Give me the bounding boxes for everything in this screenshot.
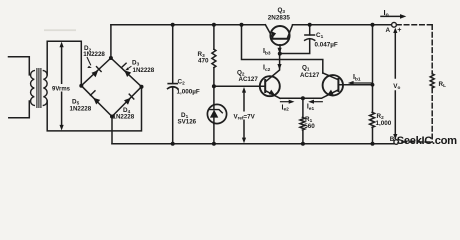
node Vref measurement arrow (243, 92, 245, 139)
wire top rail left segment (raw DC) (111, 24, 265, 26)
wire Q3 emitter lead (265, 25, 272, 38)
label Vref 7V (233, 112, 258, 120)
svg-text:0.047µF: 0.047µF (315, 41, 338, 48)
svg-text:B: B (390, 136, 395, 143)
wire Q1 emitter (280, 90, 338, 99)
svg-text:470: 470 (198, 58, 209, 65)
svg-text:Ie1: Ie1 (307, 104, 315, 112)
zener diode D1 (213, 86, 215, 105)
transistor Q3 (270, 26, 289, 45)
wire Q2 base line (214, 85, 265, 87)
node emitter junction (301, 96, 305, 100)
diode D2 cathode bar (97, 67, 102, 72)
label 9Vrms (51, 84, 69, 92)
svg-text:Vo: Vo (393, 83, 400, 90)
diode D3 cathode bar (122, 63, 127, 67)
resistor R1 branch (302, 98, 304, 117)
diode D2 arrow (92, 70, 99, 77)
svg-text:1N2228: 1N2228 (83, 51, 105, 58)
terminal A+ (392, 22, 397, 27)
resistor R2 branch (372, 25, 374, 113)
svg-text:Ic2: Ic2 (263, 65, 271, 73)
wire dashed load loop (397, 25, 433, 142)
node I_e2 arrow (281, 101, 291, 103)
svg-text:SV126: SV126 (178, 119, 197, 126)
scan smudge artifact (44, 29, 76, 31)
wire bridge bottom vertical (111, 117, 113, 144)
resistor R3 zigzag (212, 49, 216, 67)
label pointer D3 (128, 67, 131, 69)
svg-text:1N2228: 1N2228 (70, 106, 92, 113)
svg-text:Io: Io (384, 8, 389, 18)
node R2/Q1 base junction (371, 83, 375, 87)
transistor Q2 (260, 76, 280, 96)
svg-text:AC127: AC127 (239, 76, 259, 83)
wire Q3 collector lead (287, 25, 292, 38)
svg-text:9Vrms: 9Vrms (52, 86, 71, 92)
diode D4 cathode bar (129, 94, 134, 99)
wire bottom rail (112, 143, 394, 145)
node I_b3 junction (278, 52, 282, 56)
transistor Q1 (323, 75, 343, 95)
node I_b1 arrow (353, 82, 372, 84)
wire Q1 collector diag (323, 73, 339, 80)
svg-text:D3: D3 (132, 60, 140, 67)
node 9Vrms measurement arrow (60, 42, 64, 131)
terminal B- (394, 140, 399, 145)
svg-text:Ib3: Ib3 (263, 48, 271, 56)
wire Q2 collector (265, 54, 279, 82)
node Vo measurement line (394, 30, 396, 137)
node I_c2 arrow on Q2 collector (277, 64, 281, 70)
transformer T1 secondary winding (43, 71, 47, 106)
svg-text:A: A (386, 27, 391, 34)
wire Q2 emitter (265, 91, 280, 99)
junction dots bridge (109, 56, 113, 60)
svg-text:Q3: Q3 (278, 7, 286, 14)
svg-text:1N2228: 1N2228 (133, 67, 155, 74)
svg-text:1,000: 1,000 (376, 120, 392, 127)
wire Q3 base to C1 (280, 40, 310, 54)
resistor RL zigzag (430, 74, 434, 88)
wire Q1 collector feed from raw rail (242, 25, 323, 73)
wire secondary bottom lead (47, 87, 141, 131)
transformer T1 primary bottom lead (9, 101, 30, 118)
diode bridge arms (81, 58, 141, 117)
diode D4 arrow (124, 98, 131, 105)
svg-text:2N2835: 2N2835 (268, 15, 291, 22)
capacitor C1 (305, 34, 315, 36)
svg-text:SeekIC.com: SeekIC.com (397, 135, 457, 147)
svg-text:RL: RL (439, 81, 447, 88)
svg-text:C2: C2 (178, 79, 186, 86)
svg-text:Ie2: Ie2 (282, 104, 290, 112)
node I_e1 arrow (312, 101, 322, 103)
wire secondary top lead (47, 41, 81, 85)
svg-text:Vref=7V: Vref=7V (234, 113, 256, 120)
junction dots top rail (171, 23, 175, 27)
svg-text:+: + (397, 25, 401, 34)
label pointer D2 (87, 58, 90, 65)
svg-text:560: 560 (304, 123, 315, 130)
node R3 zener junction (212, 84, 216, 88)
svg-text:AC127: AC127 (300, 72, 320, 79)
transformer T1 primary winding (31, 71, 35, 106)
capacitor C2 branch (172, 25, 174, 84)
transformer T1 primary top lead (9, 57, 30, 75)
diode D5 cathode bar (90, 91, 95, 95)
svg-text:C1: C1 (316, 32, 324, 39)
junction dots bottom rail (171, 142, 175, 146)
resistor R3 branch (213, 25, 215, 49)
wire top rail right segment (output) (293, 24, 392, 26)
svg-text:Ib1: Ib1 (353, 74, 361, 82)
wire Q3 base (279, 45, 281, 54)
wire bridge top vertical (110, 25, 112, 58)
diode D5 arrow (93, 98, 100, 105)
diode D3 arrow (124, 70, 131, 77)
svg-text:1,000µF: 1,000µF (177, 89, 200, 96)
wire Q1 base lead (338, 84, 372, 86)
transformer T1 core (37, 69, 41, 108)
svg-text:1N2228: 1N2228 (113, 113, 135, 120)
node Io arrow (381, 15, 401, 17)
svg-text:Q1: Q1 (302, 65, 310, 72)
